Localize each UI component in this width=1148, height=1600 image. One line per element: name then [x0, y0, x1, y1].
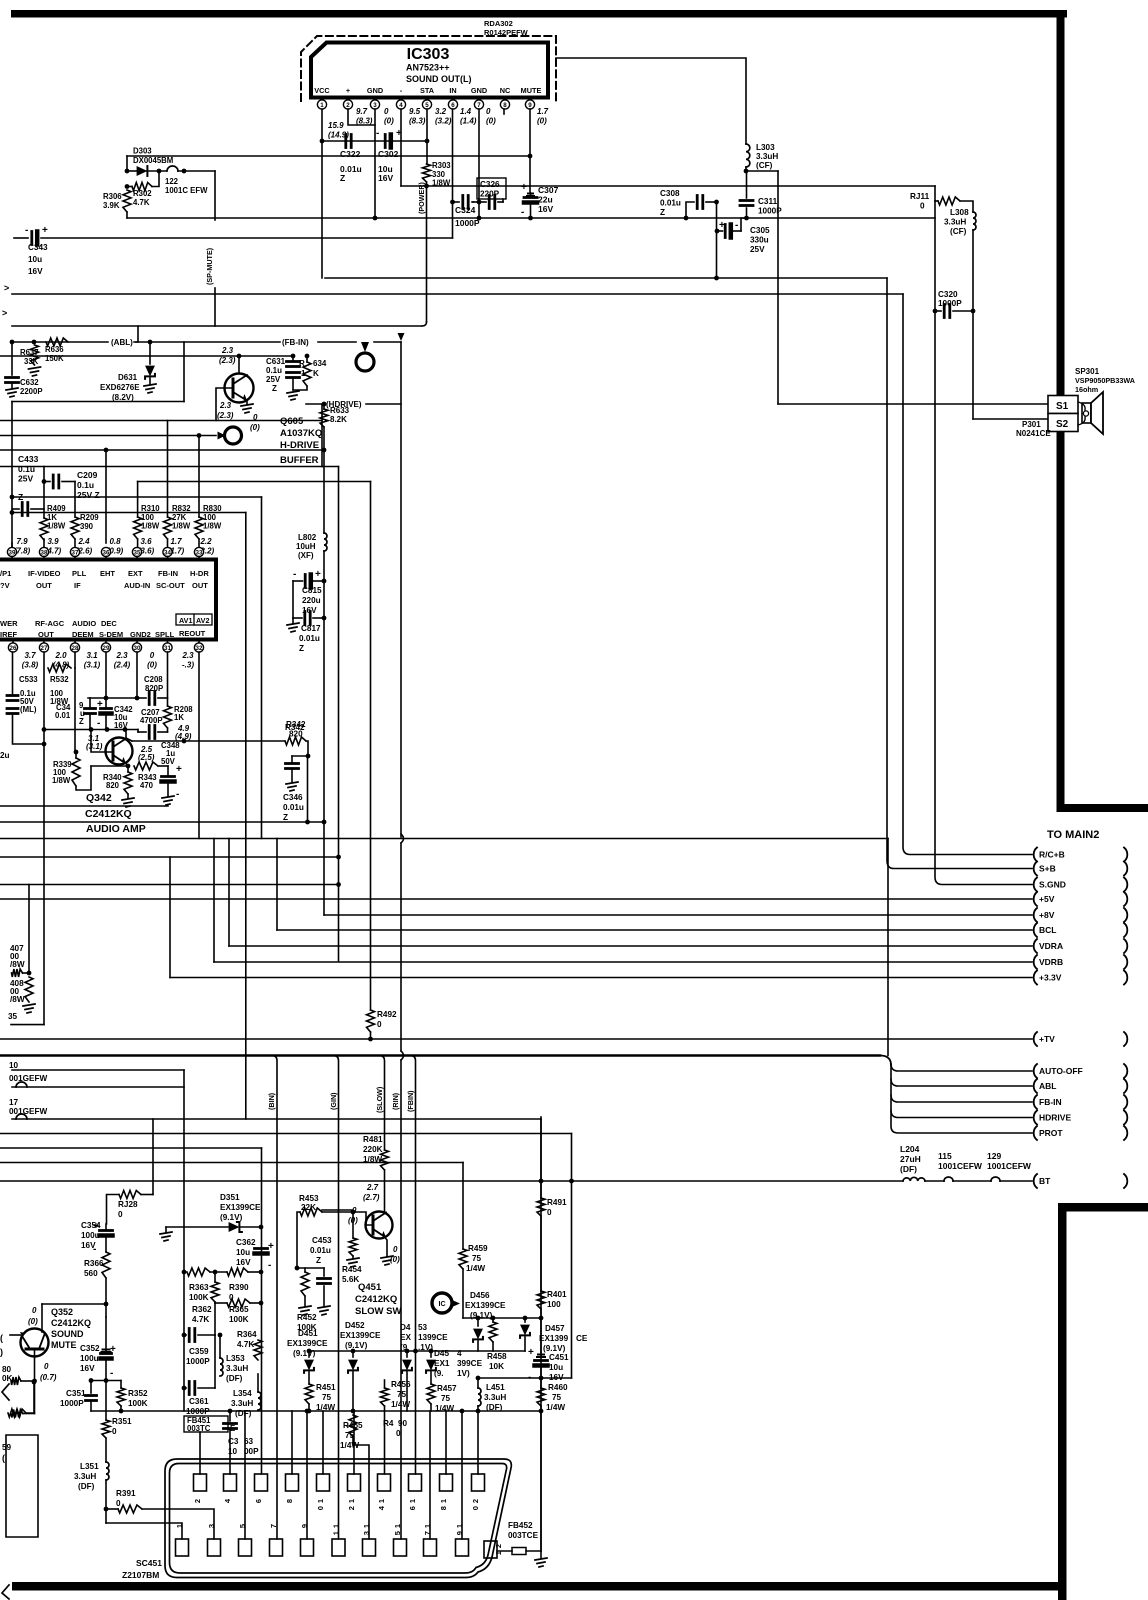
- svg-text:25V: 25V: [750, 245, 765, 254]
- svg-text:C361: C361: [189, 1397, 209, 1406]
- svg-text:0.1u: 0.1u: [266, 366, 282, 375]
- svg-text:R365: R365: [229, 1305, 249, 1314]
- node circle IO: [432, 1293, 452, 1313]
- svg-text:(SP-MUTE): (SP-MUTE): [205, 247, 214, 285]
- wire Q342 base: [91, 730, 113, 753]
- svg-text:7: 7: [477, 102, 481, 109]
- svg-text:35: 35: [8, 1012, 18, 1021]
- svg-text:2: 2: [494, 1544, 503, 1548]
- ferrite bead on y1087: [16, 1082, 27, 1087]
- svg-text:75: 75: [552, 1393, 562, 1402]
- inductor L451: [477, 1378, 479, 1388]
- svg-text:90: 90: [398, 1419, 408, 1428]
- svg-text:R306: R306: [103, 192, 122, 201]
- svg-text:L303: L303: [756, 143, 775, 152]
- svg-text:0.01u: 0.01u: [310, 1246, 331, 1255]
- svg-text:FB-IN: FB-IN: [1039, 1097, 1062, 1107]
- resistor R342: [285, 737, 306, 745]
- svg-text:220P: 220P: [480, 190, 500, 199]
- pin 7 of IC303: [478, 98, 480, 101]
- svg-text:NC: NC: [500, 86, 511, 95]
- resistor R208: [164, 706, 172, 728]
- pin 20 of SC451: [472, 1474, 485, 1491]
- capacitor C326: [488, 196, 491, 209]
- wire x184 rail down: [183, 1070, 185, 1411]
- svg-text:0: 0: [486, 107, 491, 116]
- connector +TV: [1034, 1032, 1037, 1046]
- svg-text:IF: IF: [74, 581, 81, 590]
- resistor R340: [127, 766, 129, 772]
- svg-text:R830: R830: [203, 504, 222, 513]
- svg-text:R409: R409: [47, 504, 66, 513]
- svg-text:+: +: [528, 1347, 534, 1358]
- svg-text:10K: 10K: [489, 1362, 504, 1371]
- svg-text:3.3uH: 3.3uH: [944, 218, 966, 227]
- svg-text:D45: D45: [434, 1349, 449, 1358]
- wire pin28 down: [74, 652, 76, 668]
- svg-text:220u: 220u: [302, 596, 321, 605]
- svg-text:DEC: DEC: [101, 619, 117, 628]
- svg-text:100: 100: [547, 1300, 561, 1309]
- svg-text:16V: 16V: [236, 1258, 251, 1267]
- svg-text:SP301: SP301: [1075, 367, 1100, 376]
- wire S1 line: [778, 403, 1048, 405]
- resistor R634: [306, 356, 308, 362]
- svg-text:0: 0: [396, 1429, 401, 1438]
- diode D453 zener: [406, 1351, 408, 1357]
- capacitor C324: [453, 201, 460, 203]
- wire R633 down / L802 rail: [323, 427, 325, 533]
- svg-text:R492: R492: [377, 1010, 397, 1019]
- svg-text:390: 390: [80, 522, 94, 531]
- svg-text:R452: R452: [297, 1313, 317, 1322]
- connector +8V: [1034, 908, 1037, 922]
- svg-text:-: -: [110, 1368, 113, 1379]
- resistor R409: [40, 518, 48, 540]
- svg-text:C343: C343: [28, 243, 48, 252]
- capacitor C311: [740, 199, 753, 202]
- pin 12 of SC451: [348, 1474, 361, 1491]
- wire pin feed pin12: [353, 1411, 355, 1474]
- svg-text:1: 1: [320, 102, 324, 109]
- wire GIN vertical upper: [338, 467, 340, 962]
- wire pin30 down: [136, 652, 138, 698]
- svg-text:(0): (0): [537, 117, 547, 126]
- svg-text:003TCE: 003TCE: [508, 1531, 539, 1540]
- svg-text:1/8W: 1/8W: [363, 1155, 382, 1164]
- resistor R363: [187, 1268, 210, 1276]
- pin 18 of SC451: [440, 1474, 453, 1491]
- svg-text:R491: R491: [547, 1198, 567, 1207]
- resistor R359 left edge: [8, 1409, 26, 1417]
- svg-text:+: +: [719, 220, 725, 231]
- svg-text:IN: IN: [449, 86, 456, 95]
- resistor R339: [72, 758, 80, 786]
- wire pin feeds top row: [291, 1411, 293, 1474]
- svg-text:37: 37: [72, 549, 79, 556]
- svg-text:R390: R390: [229, 1283, 249, 1292]
- pin 9 of SC451: [301, 1539, 314, 1556]
- svg-text:R633: R633: [330, 406, 350, 415]
- wire x215 to C361: [214, 1335, 216, 1388]
- wire R342 right down: [306, 741, 308, 756]
- pin 4 of SC451: [224, 1474, 237, 1491]
- capacitor C307 polar: [530, 193, 532, 196]
- svg-text:(SLOW): (SLOW): [375, 1086, 384, 1113]
- svg-text:R363: R363: [189, 1283, 209, 1292]
- svg-text:3: 3: [207, 1524, 216, 1528]
- svg-text:R458: R458: [487, 1352, 507, 1361]
- svg-text:1: 1: [408, 1499, 417, 1503]
- bead 129: [991, 1177, 1000, 1181]
- svg-text:59: 59: [2, 1443, 12, 1452]
- svg-text:(3.2): (3.2): [435, 117, 452, 126]
- svg-text:Q605: Q605: [280, 416, 304, 427]
- svg-text:0: 0: [377, 1020, 382, 1029]
- svg-text:BCL: BCL: [1039, 925, 1056, 935]
- svg-text:(BIN): (BIN): [267, 1092, 276, 1110]
- connector +5V: [1034, 892, 1037, 906]
- svg-text:AN7523++: AN7523++: [406, 63, 450, 73]
- resistor R637: [31, 345, 39, 365]
- svg-text:1: 1: [332, 1531, 341, 1535]
- svg-text:31: 31: [164, 645, 171, 652]
- connector HDRIVE: [1034, 1111, 1037, 1125]
- wire pin5 feed: [244, 1411, 246, 1539]
- wire FBIN vertical: [411, 1056, 416, 1352]
- svg-text:(FBIN): (FBIN): [406, 1090, 415, 1112]
- svg-text:L802: L802: [298, 533, 317, 542]
- connector P301 S2 box: [1048, 414, 1078, 432]
- connector R/C+B: [1034, 848, 1037, 862]
- svg-text:S-DEM: S-DEM: [99, 630, 123, 639]
- svg-text:VCC: VCC: [314, 86, 330, 95]
- svg-text:15.9: 15.9: [328, 121, 344, 130]
- wire x44 rail: [43, 467, 45, 519]
- wire Q352 emitter stub left: [10, 1334, 21, 1336]
- svg-text:?V: ?V: [0, 581, 10, 590]
- svg-text:2.3: 2.3: [221, 346, 234, 355]
- svg-text:R310: R310: [141, 504, 160, 513]
- svg-text:3.7: 3.7: [24, 651, 36, 660]
- wire audio caps row y141: [322, 140, 427, 142]
- svg-text:3.3uH: 3.3uH: [231, 1399, 253, 1408]
- wire bead I17 line y1119: [12, 1118, 541, 1120]
- inductor L303: [746, 144, 750, 167]
- resistor R452: [301, 1272, 309, 1296]
- svg-text:D451: D451: [298, 1329, 318, 1338]
- svg-text:63: 63: [244, 1437, 254, 1446]
- svg-text:0.01u: 0.01u: [660, 199, 681, 208]
- svg-text:(9.1V): (9.1V): [543, 1344, 566, 1353]
- svg-text:(DF): (DF): [226, 1374, 243, 1383]
- wire bead line y1087: [12, 1086, 184, 1088]
- wire pin2 stub: [348, 109, 375, 125]
- connector VDRA: [1034, 939, 1037, 953]
- wire S+B feed: [887, 278, 1032, 869]
- inductor L354: [258, 1392, 261, 1410]
- svg-text:R: R: [299, 359, 305, 368]
- svg-text:GND: GND: [367, 86, 383, 95]
- resistor R366: [102, 1252, 110, 1278]
- svg-text:R303: R303: [432, 161, 451, 170]
- svg-text:R453: R453: [299, 1194, 319, 1203]
- svg-text:75: 75: [345, 1431, 355, 1440]
- svg-text:1.4: 1.4: [460, 107, 472, 116]
- svg-text:3.2: 3.2: [435, 107, 447, 116]
- inductor L308: [960, 201, 973, 212]
- wire R491 col x541: [540, 1117, 542, 1198]
- svg-text:GND: GND: [471, 86, 487, 95]
- svg-text:2.7: 2.7: [366, 1183, 379, 1192]
- svg-text:L308: L308: [950, 208, 969, 217]
- capacitor C433 cap: [21, 503, 24, 516]
- svg-text:3.3uH: 3.3uH: [226, 1364, 248, 1373]
- svg-text:+3.3V: +3.3V: [1039, 973, 1062, 983]
- svg-text:AV1: AV1: [179, 616, 192, 625]
- svg-text:10uH: 10uH: [296, 542, 316, 551]
- wire bus y857: [0, 856, 339, 858]
- svg-text:820: 820: [106, 781, 120, 790]
- svg-text:D452: D452: [345, 1321, 365, 1330]
- svg-text:): ): [0, 1347, 3, 1357]
- wire D456 bus y1318: [463, 1317, 541, 1319]
- svg-text:(XF): (XF): [298, 551, 314, 560]
- svg-text:OUT: OUT: [38, 630, 54, 639]
- svg-text:SOUND: SOUND: [51, 1329, 84, 1339]
- svg-text:L204: L204: [900, 1144, 920, 1154]
- capacitor C348 polar: [158, 765, 168, 767]
- svg-text:EHT: EHT: [100, 569, 115, 578]
- wire pin27 rail lower corner: [43, 857, 45, 1025]
- wire R339 feedback: [91, 765, 128, 767]
- wire BCL from x277: [276, 839, 278, 931]
- resistor RJ28: [119, 1191, 141, 1199]
- svg-text:36: 36: [103, 549, 110, 556]
- svg-text:0: 0: [547, 1208, 552, 1217]
- svg-text:10: 10: [228, 1447, 238, 1456]
- wire bead I10 line y1070: [12, 1069, 184, 1071]
- svg-text:ABL: ABL: [1039, 1081, 1056, 1091]
- wire line y1133: [0, 1133, 572, 1135]
- svg-text:6: 6: [254, 1499, 263, 1503]
- svg-text:4: 4: [457, 1349, 462, 1358]
- svg-text:BUFFER: BUFFER: [280, 455, 319, 466]
- wire Q604 base: [216, 388, 233, 421]
- wire long y450: [0, 449, 322, 451]
- svg-text:0: 0: [32, 1306, 37, 1315]
- svg-text:N0241CE: N0241CE: [1016, 429, 1051, 438]
- svg-text:16ohm: 16ohm: [1075, 385, 1098, 394]
- svg-text:129: 129: [987, 1151, 1001, 1161]
- wire y481 right piece: [138, 481, 371, 483]
- svg-text:22K: 22K: [301, 1203, 316, 1212]
- svg-text:1/4W: 1/4W: [466, 1264, 485, 1273]
- svg-text:27uH: 27uH: [900, 1154, 921, 1164]
- svg-text:+: +: [97, 699, 103, 710]
- svg-text:00P: 00P: [244, 1447, 259, 1456]
- svg-text:C308: C308: [660, 189, 680, 198]
- connector FB-IN: [1034, 1095, 1037, 1109]
- svg-text:EX1: EX1: [434, 1359, 450, 1368]
- svg-text:+: +: [176, 764, 182, 775]
- svg-text:10u: 10u: [28, 255, 42, 264]
- svg-text:C817: C817: [301, 624, 321, 633]
- wire ground rail y806: [0, 805, 168, 807]
- svg-text:EXT: EXT: [128, 569, 143, 578]
- svg-text:100K: 100K: [229, 1315, 249, 1324]
- wire long line y218: [127, 217, 935, 219]
- svg-text:WER: WER: [0, 619, 18, 628]
- svg-text:SOUND OUT(L): SOUND OUT(L): [406, 74, 472, 84]
- svg-text:D351: D351: [220, 1193, 240, 1202]
- wire x106 to pin1: [105, 1509, 107, 1523]
- connector +3.3V: [1034, 971, 1037, 985]
- svg-text:1399CE: 1399CE: [418, 1333, 448, 1342]
- svg-text:2.3: 2.3: [115, 651, 128, 660]
- svg-text:DEEM: DEEM: [72, 630, 94, 639]
- svg-text:+: +: [268, 1241, 274, 1252]
- svg-text:2: 2: [193, 1499, 202, 1503]
- svg-text:1000P: 1000P: [758, 207, 782, 216]
- resistor R633: [323, 404, 325, 409]
- svg-text:3.3uH: 3.3uH: [484, 1393, 506, 1402]
- svg-text:1/8W: 1/8W: [172, 522, 191, 531]
- svg-text:R362: R362: [192, 1305, 212, 1314]
- svg-text:(3.8): (3.8): [22, 661, 39, 670]
- wire Q604 collector: [238, 356, 240, 374]
- pin 1 of SC451: [176, 1539, 189, 1556]
- capacitor C302 polar: [384, 135, 387, 148]
- svg-text:EX: EX: [400, 1333, 411, 1342]
- resistor R481: [381, 1150, 389, 1170]
- svg-text:1/8W: 1/8W: [52, 776, 71, 785]
- wire long line y186 pin4 to RJ11: [401, 185, 935, 187]
- svg-text:26: 26: [10, 645, 17, 652]
- svg-text:C320: C320: [938, 290, 958, 299]
- svg-text:/8W: /8W: [10, 995, 25, 1004]
- wire pin4 down to long line: [400, 109, 402, 186]
- svg-text:2.4: 2.4: [77, 537, 90, 546]
- inductor L802: [324, 533, 327, 551]
- ground Q451 emitter: [385, 1238, 387, 1257]
- svg-text:Z: Z: [660, 208, 665, 217]
- svg-text:1V): 1V): [457, 1369, 470, 1378]
- IC U-IC303 outer dashed box: [301, 36, 556, 101]
- svg-text:100: 100: [141, 513, 155, 522]
- svg-text:BT: BT: [1039, 1176, 1051, 1186]
- capacitor C817: [292, 581, 294, 618]
- capacitor C209: [52, 475, 55, 488]
- svg-text:0.01u: 0.01u: [299, 634, 320, 643]
- svg-text:3.9K: 3.9K: [103, 201, 120, 210]
- svg-text:0K: 0K: [2, 1374, 13, 1383]
- svg-text:(2.3): (2.3): [219, 356, 236, 365]
- inductor L353: [220, 1358, 223, 1376]
- svg-text:C209: C209: [77, 470, 98, 480]
- node FB-IN circle: [361, 342, 369, 352]
- svg-text:2.3: 2.3: [219, 401, 232, 410]
- wire x307 rail down: [307, 756, 309, 822]
- svg-text:0: 0: [112, 1427, 117, 1436]
- svg-text:1: 1: [362, 1524, 371, 1528]
- resistor R455: [349, 1415, 357, 1437]
- capacitor C362 polar: [255, 1247, 268, 1250]
- pin 3 of SC451: [208, 1539, 221, 1556]
- transistor Q342: [106, 738, 133, 765]
- svg-text:0: 0: [316, 1506, 325, 1510]
- wire S.GND feed: [935, 311, 1032, 885]
- wire R366 down: [105, 1278, 107, 1317]
- svg-text:(0.7): (0.7): [40, 1373, 57, 1382]
- resistor R492: [367, 1010, 375, 1032]
- wire bus +5V: [0, 898, 1032, 900]
- svg-text:1.7: 1.7: [170, 537, 182, 546]
- svg-text:1K: 1K: [47, 513, 57, 522]
- wire bus y884: [0, 884, 339, 886]
- resistor R401: [537, 1291, 545, 1309]
- svg-text:R366: R366: [84, 1259, 104, 1268]
- svg-text:C453: C453: [312, 1236, 332, 1245]
- capacitor C343 polar: [14, 237, 28, 239]
- svg-text:IF-VIDEO: IF-VIDEO: [28, 569, 61, 578]
- wire pins stubs to IC: [43, 539, 45, 547]
- svg-text:R/C+B: R/C+B: [1039, 850, 1065, 860]
- svg-text:R459: R459: [468, 1244, 488, 1253]
- svg-text:GND2: GND2: [130, 630, 151, 639]
- connector SC451 outline outer: [165, 1459, 511, 1578]
- svg-text:(: (: [0, 1333, 3, 1343]
- wire POWER down: [426, 182, 428, 322]
- svg-text:(CF): (CF): [756, 161, 773, 170]
- wire S2 line: [973, 418, 1048, 420]
- IC TV-chip bottom pins: [12, 640, 14, 644]
- left edge arrow 1392: [2, 1384, 9, 1400]
- svg-text:RJ11: RJ11: [910, 192, 930, 201]
- svg-text:R832: R832: [172, 504, 191, 513]
- svg-text:C354: C354: [81, 1221, 101, 1230]
- svg-text:1: 1: [347, 1499, 356, 1503]
- wire collector to R342: [132, 740, 285, 742]
- capacitor C208: [148, 692, 151, 705]
- capacitor C453 cap: [323, 1268, 325, 1276]
- resistor R209: [71, 517, 79, 539]
- resistor R306: [123, 190, 131, 212]
- svg-text:4.7K: 4.7K: [192, 1315, 209, 1324]
- capacitor C352 polar: [105, 1317, 107, 1352]
- wire +TV bus: [0, 1038, 1032, 1040]
- svg-text:R455: R455: [343, 1421, 363, 1430]
- svg-text:C3: C3: [228, 1437, 239, 1446]
- svg-text:(9.1V): (9.1V): [220, 1213, 243, 1222]
- svg-text:100: 100: [203, 513, 217, 522]
- svg-text:33: 33: [196, 549, 203, 556]
- svg-text:AUTO-OFF: AUTO-OFF: [1039, 1066, 1083, 1076]
- border bottom bar: [12, 1582, 1062, 1591]
- wire D303 top corner: [126, 156, 128, 171]
- svg-text:29: 29: [103, 645, 110, 652]
- svg-text:3.6: 3.6: [140, 537, 152, 546]
- wire x888 drop to heavy line: [887, 839, 889, 1056]
- diode D457 zener: [524, 1318, 526, 1322]
- svg-text:FB452: FB452: [508, 1521, 533, 1530]
- resistor R359 row: [11, 1410, 23, 1418]
- svg-text:1: 1: [393, 1524, 402, 1528]
- wire bottom bus y1411: [91, 1410, 541, 1412]
- svg-text:TO MAIN2: TO MAIN2: [1047, 829, 1099, 841]
- svg-text:VSP9050PB33WA: VSP9050PB33WA: [1075, 376, 1135, 385]
- diode D456 zener: [477, 1318, 479, 1326]
